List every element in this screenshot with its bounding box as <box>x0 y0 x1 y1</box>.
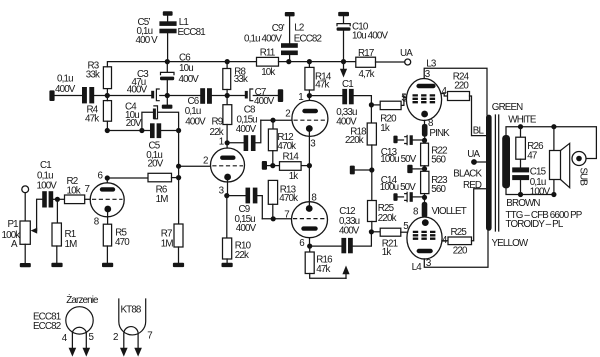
ground under R1 <box>51 263 62 267</box>
svg-text:ECC82: ECC82 <box>294 33 322 44</box>
wire P1 to ground <box>24 244 26 263</box>
svg-text:220: 220 <box>454 81 469 92</box>
capacitor C14 <box>380 175 427 202</box>
P1 wiper arrow <box>31 199 43 233</box>
svg-text:C15: C15 <box>530 166 547 177</box>
svg-text:L4: L4 <box>412 262 423 273</box>
winding VIOLLET cathode L4 <box>413 202 467 218</box>
label TOROIDY <box>506 219 564 230</box>
wire jack to P1 <box>24 193 26 221</box>
svg-text:400 V: 400 V <box>136 35 159 46</box>
node under C3 <box>165 93 170 105</box>
wire cathode pin 8 to R5 <box>94 212 108 227</box>
svg-text:WHITE: WHITE <box>508 114 537 125</box>
svg-text:KT88: KT88 <box>121 304 142 315</box>
svg-text:400V: 400V <box>236 223 257 234</box>
pentode L4 KT88 <box>407 217 442 273</box>
resistor R18 <box>345 105 376 170</box>
resistor R11 <box>257 48 279 78</box>
svg-text:220k: 220k <box>345 135 364 146</box>
resistor R24 <box>441 72 486 136</box>
pin 2 label T3 <box>285 109 290 120</box>
resistor R2 <box>65 176 85 204</box>
feedback arrow down at rail <box>340 62 347 78</box>
svg-text:BROWN: BROWN <box>506 198 540 209</box>
label GREEN <box>492 102 523 113</box>
resistor R7 <box>161 166 183 263</box>
capacitor C6 film <box>185 88 212 127</box>
svg-text:400V: 400V <box>127 85 148 96</box>
svg-text:220: 220 <box>453 246 468 257</box>
svg-text:1k: 1k <box>382 247 392 258</box>
potentiometer P1 <box>2 219 31 250</box>
wire C5' to rail node <box>165 33 170 64</box>
svg-text:400V: 400V <box>254 96 275 107</box>
resistor R14 1k <box>270 152 312 183</box>
label BL <box>473 126 485 137</box>
node L3 cathode network <box>422 138 427 143</box>
svg-text:560: 560 <box>431 155 446 166</box>
resistor R8 <box>223 59 248 96</box>
svg-text:10u 400V: 10u 400V <box>352 31 388 42</box>
svg-text:UA: UA <box>400 48 413 59</box>
pin 1 plate node T3 <box>298 92 312 103</box>
label C6 10u 400V <box>179 53 200 85</box>
svg-text:UA: UA <box>467 149 480 160</box>
resistor R23 <box>421 171 449 202</box>
svg-text:400V: 400V <box>185 116 206 127</box>
svg-text:P1: P1 <box>8 219 19 230</box>
capacitor C8 <box>227 104 261 151</box>
svg-text:400V: 400V <box>55 84 76 95</box>
pin 1 plate node T2 <box>219 137 230 148</box>
transformer core <box>495 115 498 231</box>
capacitor C13 <box>380 135 424 165</box>
svg-text:1k: 1k <box>289 171 299 182</box>
resistor R6 <box>107 173 181 205</box>
svg-text:560: 560 <box>431 184 446 195</box>
svg-text:VIOLLET: VIOLLET <box>432 206 467 217</box>
svg-text:1M: 1M <box>161 238 174 249</box>
svg-text:470: 470 <box>115 237 130 248</box>
wire R1 to ground <box>56 246 58 263</box>
svg-text:TOROIDY – PL: TOROIDY – PL <box>506 219 564 230</box>
svg-text:R17: R17 <box>358 48 374 59</box>
resistor R22 <box>421 140 448 171</box>
svg-text:47k: 47k <box>85 113 99 124</box>
resistor R16 <box>305 246 333 275</box>
label YELLOW <box>492 238 529 249</box>
resistor R25 220k <box>368 170 397 232</box>
capacitor C3 electrolytic <box>127 62 174 96</box>
svg-text:BLACK: BLACK <box>453 169 482 180</box>
ground under R7 <box>173 263 184 267</box>
wire L4 plate to transformer <box>424 230 488 267</box>
svg-text:Żarzenie: Żarzenie <box>66 295 99 306</box>
capacitor 0,1u 400V feedback <box>55 74 94 104</box>
capacitor C12 coupling <box>310 206 372 253</box>
pin 7 label T4 <box>284 209 289 220</box>
svg-text:1: 1 <box>219 137 224 148</box>
terminal UA <box>376 48 414 65</box>
pin 3 cathode wire T3 <box>309 132 316 166</box>
label TTG CFB <box>506 210 583 221</box>
heater legend ECC tube <box>33 307 95 344</box>
svg-text:10k: 10k <box>67 185 81 196</box>
svg-text:7: 7 <box>147 330 152 341</box>
svg-text:47: 47 <box>527 151 537 162</box>
resistor R14 47k <box>305 62 332 96</box>
triode L2b ECC82 <box>292 202 328 238</box>
svg-text:C12: C12 <box>339 206 355 217</box>
resistor R26 <box>516 127 544 168</box>
svg-text:20V: 20V <box>148 159 164 170</box>
svg-text:400V: 400V <box>339 225 360 236</box>
capacitor C5 <box>146 123 181 169</box>
svg-text:GREEN: GREEN <box>492 102 523 113</box>
label L1 ECC81 <box>178 17 206 38</box>
svg-text:2: 2 <box>285 109 290 120</box>
ground under R5 <box>102 263 113 267</box>
transformer primary winding <box>486 115 492 231</box>
terminal UA center tap <box>467 149 486 165</box>
wire R5 to ground <box>106 246 108 263</box>
svg-text:PINK: PINK <box>429 128 450 139</box>
svg-text:22k: 22k <box>235 250 249 261</box>
feedback arrow up <box>310 266 350 279</box>
svg-text:10u: 10u <box>179 63 193 74</box>
label BROWN <box>506 198 540 209</box>
svg-text:ECC81: ECC81 <box>178 27 206 38</box>
terminal stub above C9' <box>285 12 295 43</box>
heater legend label <box>66 295 99 306</box>
transformer secondary winding <box>502 135 510 188</box>
capacitor C9 <box>227 188 262 235</box>
svg-text:R14: R14 <box>283 152 300 163</box>
svg-text:100V: 100V <box>37 181 58 192</box>
resistor R1 <box>52 199 77 250</box>
ground under C3 node <box>162 105 173 109</box>
wire secondary bottom <box>506 188 557 197</box>
rail segment R11 to R17 <box>279 59 356 64</box>
wire L3 plate to transformer <box>424 68 487 115</box>
svg-text:2: 2 <box>203 155 208 166</box>
svg-text:ECC82: ECC82 <box>33 321 61 332</box>
terminal stub above C5' <box>163 11 173 21</box>
resistor R9 <box>210 96 232 143</box>
svg-text:220k: 220k <box>378 213 397 224</box>
capacitor C2 coupling <box>151 89 200 101</box>
output jack SUB <box>572 152 589 187</box>
heater ECC pin arrows <box>69 333 91 357</box>
svg-text:33k: 33k <box>86 70 100 81</box>
pin 6 plate node T4 <box>299 238 312 250</box>
pentode L3 KT88 <box>406 59 441 121</box>
ground under R10 <box>222 263 233 267</box>
svg-text:100V: 100V <box>530 187 551 198</box>
svg-text:10k: 10k <box>261 67 275 78</box>
node R18 top <box>369 102 374 107</box>
wire C6 to R8 node <box>212 93 245 98</box>
pin 8 cathode wire T4 <box>309 166 317 206</box>
capacitor C9' <box>244 23 298 61</box>
ground under P1 <box>20 263 31 267</box>
svg-text:2: 2 <box>113 332 118 343</box>
svg-text:470k: 470k <box>279 193 298 204</box>
svg-text:47k: 47k <box>315 80 329 91</box>
svg-text:0,1u: 0,1u <box>57 74 73 85</box>
L3 pin labels <box>401 69 447 129</box>
svg-text:SUB: SUB <box>578 168 589 187</box>
wire T2 grid line <box>176 131 211 169</box>
heater KT88 pin arrows <box>120 333 142 356</box>
capacitor C10 electrolytic <box>337 12 389 62</box>
resistor R25 220 <box>442 189 486 257</box>
svg-text:470k: 470k <box>277 141 296 152</box>
wire R3 top to rail <box>107 62 167 96</box>
resistor R21 <box>369 221 410 258</box>
wire R2 to grid pin 7 <box>85 184 91 199</box>
capacitor C5' <box>136 17 177 46</box>
svg-text:100u 50V: 100u 50V <box>380 182 416 193</box>
svg-text:C1: C1 <box>342 79 353 90</box>
svg-text:0,1u 400V: 0,1u 400V <box>244 33 282 44</box>
capacitor C15 <box>512 166 550 197</box>
svg-text:4,7k: 4,7k <box>359 69 375 80</box>
svg-text:1k: 1k <box>380 123 390 134</box>
wire secondary top <box>506 124 596 158</box>
svg-text:400V: 400V <box>179 74 200 85</box>
rail B+ segment to R11 <box>167 61 256 63</box>
svg-text:1M: 1M <box>156 194 169 205</box>
speaker <box>550 127 570 195</box>
label L2 ECC82 <box>294 23 322 45</box>
cathode mid tap bar <box>407 165 427 173</box>
svg-text:20V: 20V <box>126 118 142 129</box>
winding PINK cathode L3 <box>422 120 450 140</box>
wire y130 plate chain <box>105 128 150 133</box>
pin 3 cathode node T2 <box>219 180 230 198</box>
svg-text:L2: L2 <box>294 23 304 34</box>
pin 6 plate node <box>98 170 110 182</box>
input feedback stub terminal <box>49 90 54 101</box>
terminal stub left of R18 node <box>350 166 375 175</box>
svg-text:7: 7 <box>85 184 90 195</box>
capacitor C4 electrolytic <box>125 102 179 131</box>
L4 pin labels <box>426 235 448 269</box>
wire cap to node A <box>94 93 151 98</box>
label WHITE <box>508 114 537 125</box>
svg-text:RED: RED <box>463 180 482 191</box>
terminal stub left of R14 1k <box>262 161 273 170</box>
label BLACK <box>453 169 482 180</box>
resistor R5 <box>103 224 130 248</box>
svg-text:1: 1 <box>298 92 303 103</box>
label RED <box>463 180 482 191</box>
heater legend KT88 tube <box>113 298 152 342</box>
svg-text:R11: R11 <box>260 48 275 59</box>
terminal stub right of C7 <box>278 89 283 102</box>
resistor R13 <box>268 180 298 218</box>
wire R4 connections <box>106 96 108 131</box>
capacitor C7 <box>245 87 278 107</box>
resistor R20 <box>371 93 408 134</box>
wire T4 grid run <box>262 216 292 221</box>
triode L1a ECC81 <box>90 183 124 217</box>
wire C1 to R2 with node <box>53 197 64 202</box>
svg-text:100u 50V: 100u 50V <box>380 154 416 165</box>
svg-text:400V: 400V <box>236 124 257 135</box>
wire T3 grid run <box>261 118 292 123</box>
wire stub to cap <box>55 95 82 97</box>
svg-text:47k: 47k <box>316 264 330 275</box>
svg-text:33k: 33k <box>234 74 248 85</box>
svg-text:7: 7 <box>284 209 289 220</box>
input terminal P1 jack <box>22 186 29 193</box>
svg-text:C1: C1 <box>40 160 51 171</box>
capacitor C1 input <box>37 160 58 208</box>
svg-text:BL: BL <box>473 126 485 137</box>
resistor R17 <box>356 48 376 80</box>
triode L2a ECC82 <box>292 100 328 136</box>
resistor R10 <box>223 196 252 263</box>
resistor R3 <box>86 61 112 89</box>
svg-text:1M: 1M <box>65 239 78 250</box>
svg-text:R25: R25 <box>451 227 468 238</box>
resistor R4 <box>85 101 112 125</box>
resistor R12 <box>268 120 296 165</box>
triode L1b ECC81 phase splitter <box>211 148 245 182</box>
capacitor C1 coupling <box>309 79 371 128</box>
svg-text:YELLOW: YELLOW <box>492 238 529 249</box>
